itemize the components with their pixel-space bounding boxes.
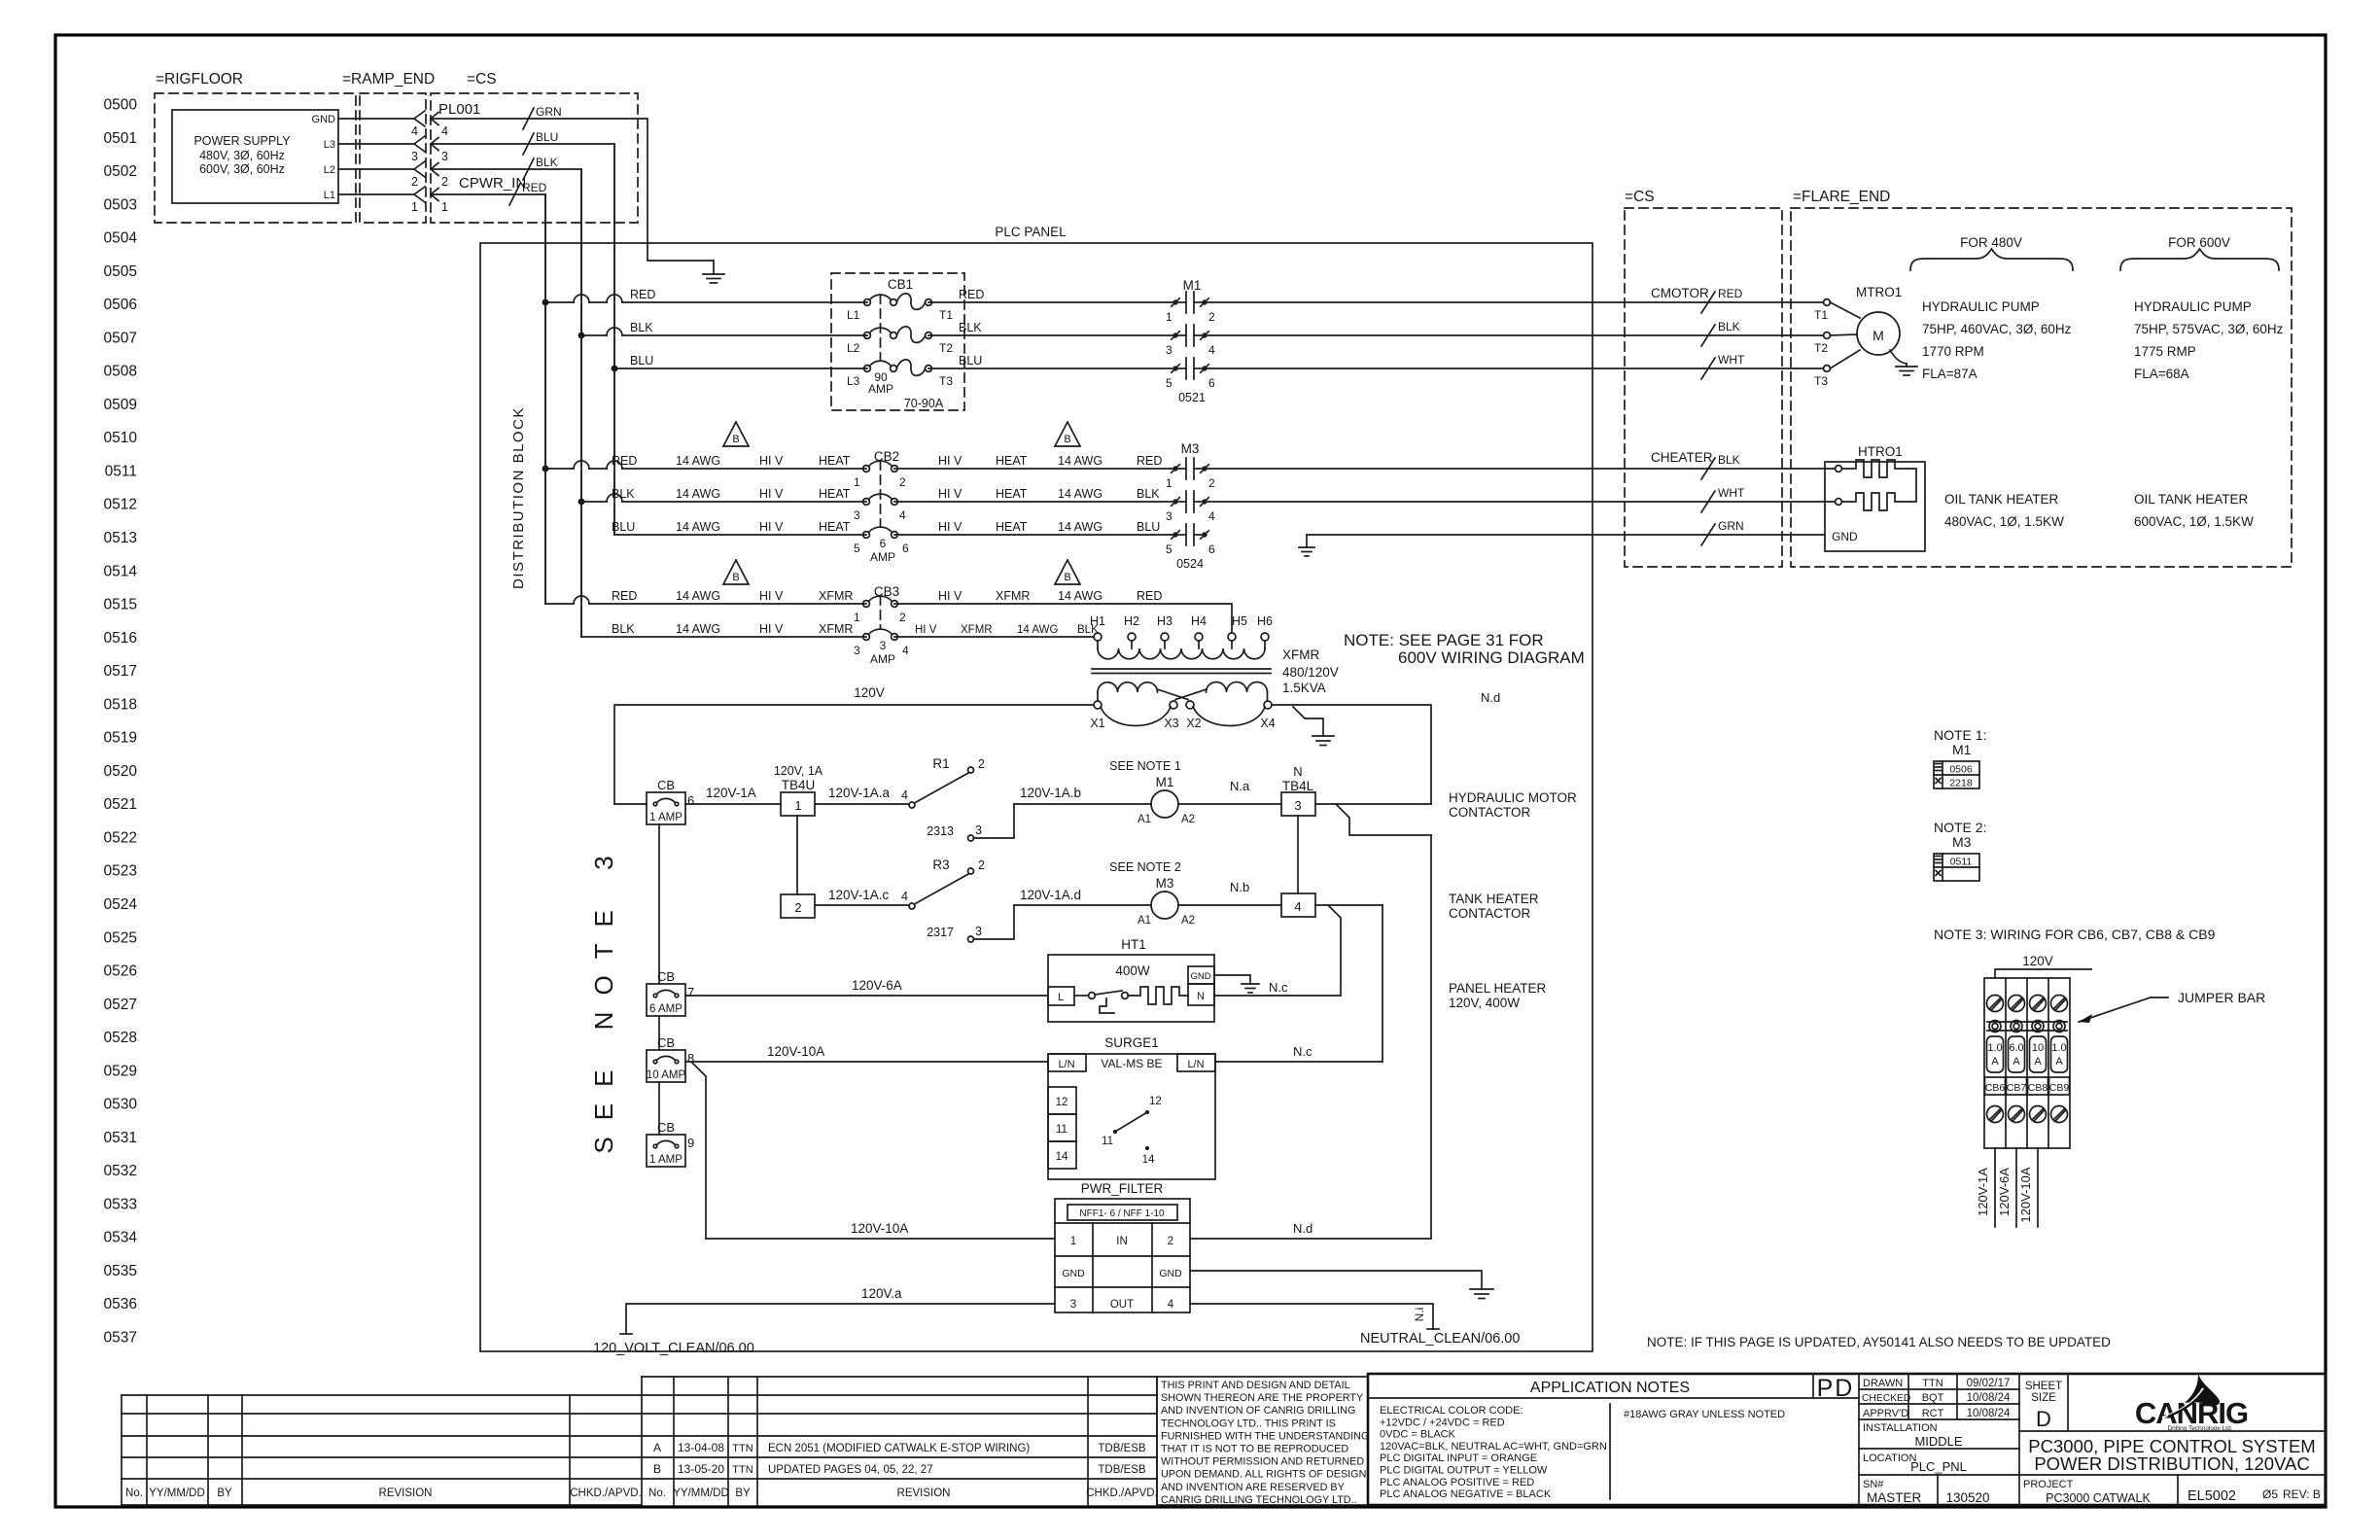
revision triangle B (right of CB3)	[1055, 560, 1080, 584]
svg-text:0513: 0513	[104, 530, 137, 546]
svg-text:RCT: RCT	[1922, 1408, 1944, 1419]
svg-text:BLK: BLK	[959, 321, 982, 334]
svg-text:WITHOUT PERMISSION AND RETURNE: WITHOUT PERMISSION AND RETURNED	[1161, 1456, 1364, 1468]
svg-text:1.0: 1.0	[1987, 1042, 2002, 1054]
svg-text:600V WIRING DIAGRAM: 600V WIRING DIAGRAM	[1398, 648, 1585, 667]
svg-text:BY: BY	[735, 1487, 751, 1499]
location box =CS right (dashed)	[1625, 208, 1782, 567]
svg-text:0511: 0511	[105, 464, 137, 480]
circuit breaker CB9	[647, 1135, 685, 1167]
breaker CB2 pole 1	[863, 466, 870, 472]
wire BLU row to CB1	[614, 367, 867, 369]
svg-text:TDB/ESB: TDB/ESB	[1098, 1443, 1146, 1454]
svg-text:WHT: WHT	[1718, 486, 1745, 500]
svg-text:APPLICATION NOTES: APPLICATION NOTES	[1530, 1380, 1690, 1396]
svg-text:TTN: TTN	[732, 1443, 752, 1454]
svg-text:0521: 0521	[104, 796, 137, 813]
svg-text:0531: 0531	[104, 1130, 137, 1146]
wire BLU distribution vertical (redraw over hops)	[613, 144, 615, 535]
SURGE1 terminal cell 12	[1048, 1087, 1076, 1114]
svg-text:2: 2	[1208, 310, 1215, 324]
svg-text:4: 4	[902, 644, 909, 657]
svg-text:REVISION: REVISION	[379, 1487, 433, 1499]
svg-text:120V-6A: 120V-6A	[852, 978, 902, 993]
svg-text:0520: 0520	[104, 763, 138, 780]
breaker CB1 pole 1 (L1-T1)	[864, 299, 871, 306]
svg-text:RED: RED	[1137, 454, 1162, 468]
wire M3 to CS row 482 (BLK)	[1207, 468, 1835, 470]
contactor M3 pole 3	[1172, 532, 1177, 537]
svg-text:HI V: HI V	[759, 622, 784, 636]
svg-text:RED: RED	[630, 288, 655, 301]
svg-text:SHEET: SHEET	[2025, 1381, 2062, 1392]
svg-text:75HP, 575VAC, 3Ø, 60Hz: 75HP, 575VAC, 3Ø, 60Hz	[2134, 322, 2284, 336]
svg-text:0508: 0508	[104, 364, 137, 380]
svg-text:0519: 0519	[104, 730, 137, 747]
svg-text:3: 3	[880, 639, 887, 652]
junction dot RED row 482	[542, 466, 549, 472]
wire TB4U-1 to TB4U-2	[796, 816, 798, 894]
svg-text:3: 3	[854, 644, 860, 657]
svg-text:3: 3	[411, 150, 418, 163]
svg-text:GND: GND	[1159, 1268, 1182, 1279]
wire CB3 pole1 to XFMR H5	[894, 604, 1232, 633]
svg-text:1 AMP: 1 AMP	[649, 1154, 682, 1166]
wire 120V-10A to PWR_FILTER pin 1	[706, 1238, 1055, 1240]
svg-text:PLC DIGITAL INPUT = ORANGE: PLC DIGITAL INPUT = ORANGE	[1380, 1452, 1537, 1464]
svg-text:T3: T3	[1814, 374, 1828, 388]
svg-text:=FLARE_END: =FLARE_END	[1793, 189, 1890, 205]
svg-text:3: 3	[441, 150, 448, 163]
svg-text:H3: H3	[1157, 614, 1172, 628]
svg-text:120V-10A: 120V-10A	[767, 1044, 824, 1059]
svg-text:14 AWG: 14 AWG	[676, 454, 720, 468]
svg-text:SURGE1: SURGE1	[1104, 1035, 1159, 1050]
svg-text:X2: X2	[1186, 717, 1201, 730]
svg-text:1: 1	[411, 200, 418, 214]
svg-text:120V: 120V	[854, 685, 885, 700]
svg-text:N.b: N.b	[1230, 880, 1249, 894]
svg-text:13-04-08: 13-04-08	[678, 1441, 724, 1454]
svg-text:600V, 3Ø, 60Hz: 600V, 3Ø, 60Hz	[199, 162, 285, 176]
svg-text:POWER DISTRIBUTION, 120VAC: POWER DISTRIBUTION, 120VAC	[2034, 1453, 2309, 1474]
svg-text:M3: M3	[1952, 834, 1972, 850]
svg-text:SHOWN THEREON ARE THE PROPERTY: SHOWN THEREON ARE THE PROPERTY	[1161, 1392, 1363, 1404]
svg-text:0522: 0522	[104, 829, 137, 846]
svg-text:PANEL HEATER: PANEL HEATER	[1449, 981, 1547, 996]
svg-text:GND: GND	[312, 114, 336, 125]
svg-text:THAT IT IS NOT TO BE REPRODUCE: THAT IT IS NOT TO BE REPRODUCED	[1161, 1444, 1348, 1455]
wire PWR_FILTER pin 4 to NEUTRAL_CLEAN	[1190, 1304, 1433, 1329]
wire CB1 to M1 RED	[928, 301, 1175, 303]
svg-text:120VAC=BLK, NEUTRAL AC=WHT,: 120VAC=BLK, NEUTRAL AC=WHT, GND=GRN	[1380, 1441, 1607, 1452]
svg-text:DISTRIBUTION BLOCK: DISTRIBUTION BLOCK	[510, 406, 527, 589]
svg-text:=RAMP_END: =RAMP_END	[342, 71, 435, 87]
svg-text:CB1: CB1	[888, 277, 913, 292]
svg-text:0507: 0507	[104, 330, 137, 346]
svg-text:0532: 0532	[104, 1163, 137, 1179]
wire BLK row to CB1	[581, 334, 867, 336]
svg-text:6: 6	[902, 542, 909, 555]
svg-text:NOTE 3: WIRING FOR CB6, C: NOTE 3: WIRING FOR CB6, CB7, CB8 & CB9	[1934, 927, 2216, 942]
right revision table	[642, 1376, 1157, 1378]
wire CB8 to CB9 chain	[658, 1082, 660, 1135]
wire TB4L-3 to N.d vertical	[1315, 803, 1431, 805]
svg-text:2: 2	[441, 175, 448, 189]
svg-text:120V-1A.b: 120V-1A.b	[1020, 786, 1081, 800]
svg-text:4: 4	[441, 124, 448, 138]
svg-text:RED: RED	[959, 288, 984, 301]
svg-text:1: 1	[1166, 476, 1172, 490]
motor MTRO1 terminal leads	[1830, 302, 1860, 318]
svg-text:2: 2	[899, 475, 906, 489]
revision triangle B (left of CB3)	[723, 560, 749, 584]
svg-text:120V-1A: 120V-1A	[706, 786, 756, 800]
svg-text:4: 4	[901, 890, 908, 903]
svg-text:10: 10	[2032, 1042, 2044, 1054]
svg-text:1: 1	[1166, 310, 1172, 324]
svg-text:AMP: AMP	[868, 382, 893, 396]
transformer XFMR secondary winding left (X1-X2 crossover)	[1098, 682, 1158, 692]
svg-text:TANK HEATER: TANK HEATER	[1449, 892, 1539, 906]
svg-text:TB4L: TB4L	[1282, 779, 1314, 793]
svg-text:HEAT: HEAT	[819, 487, 851, 501]
svg-text:OIL TANK HEATER: OIL TANK HEATER	[1944, 492, 2059, 507]
svg-text:H4: H4	[1191, 614, 1207, 628]
svg-text:CB: CB	[657, 969, 675, 984]
svg-text:1: 1	[1070, 1236, 1076, 1247]
svg-text:M3: M3	[1181, 441, 1200, 456]
contactor M1 pole 1	[1172, 299, 1177, 304]
svg-text:3: 3	[1166, 343, 1172, 357]
svg-text:CHKD./APVD.: CHKD./APVD.	[1086, 1487, 1158, 1499]
svg-text:3: 3	[1166, 509, 1172, 523]
svg-text:RED: RED	[1718, 287, 1743, 300]
svg-text:MTRO1: MTRO1	[1856, 285, 1902, 299]
svg-text:GND: GND	[1832, 530, 1858, 543]
ground at PLC panel top (GRN)	[713, 261, 715, 274]
svg-text:M1: M1	[1183, 278, 1202, 293]
wire CB8 output 120V-10A to SURGE1	[685, 1061, 1048, 1063]
svg-text:X1: X1	[1090, 717, 1104, 730]
svg-text:120V-1A.c: 120V-1A.c	[828, 888, 890, 902]
svg-text:0517: 0517	[104, 663, 137, 680]
svg-text:SEE NOTE 3: SEE NOTE 3	[589, 839, 618, 1153]
svg-text:IN: IN	[1116, 1236, 1128, 1247]
svg-text:4: 4	[1168, 1299, 1174, 1311]
svg-text:120V, 400W: 120V, 400W	[1449, 996, 1520, 1010]
svg-text:BLK: BLK	[1718, 453, 1740, 467]
svg-text:6: 6	[687, 793, 694, 808]
svg-text:0534: 0534	[104, 1230, 138, 1246]
connector PL001 socket chevron pin 4	[414, 111, 425, 126]
wire PL001-4 GRN	[431, 119, 714, 261]
svg-text:1: 1	[794, 798, 801, 813]
svg-text:A: A	[2034, 1056, 2042, 1067]
svg-text:CPWR_IN: CPWR_IN	[459, 175, 526, 192]
motor MTRO1 terminals	[1824, 299, 1831, 306]
svg-text:JUMPER BAR: JUMPER BAR	[2178, 990, 2265, 1005]
fuse block top screws	[1987, 996, 2004, 1012]
svg-text:ELECTRICAL COLOR CODE:: ELECTRICAL COLOR CODE:	[1380, 1405, 1523, 1417]
transformer XFMR secondary under-arc X2-X4	[1193, 707, 1265, 726]
svg-text:13-05-20: 13-05-20	[678, 1462, 724, 1476]
svg-text:RED: RED	[522, 181, 547, 194]
CB1 trip dashed link	[880, 295, 882, 361]
svg-text:WHT: WHT	[1718, 353, 1745, 367]
CB2 trip dashed link	[880, 461, 882, 527]
svg-text:0503: 0503	[104, 196, 137, 213]
HT1 terminal N	[1188, 984, 1214, 1005]
svg-text:0525: 0525	[104, 929, 137, 946]
svg-text:L/N: L/N	[1058, 1059, 1074, 1070]
svg-text:L2: L2	[847, 341, 860, 355]
connector PL001 socket chevron pin 3	[414, 136, 425, 152]
svg-text:HTRO1: HTRO1	[1858, 444, 1903, 459]
svg-text:14 AWG: 14 AWG	[1058, 520, 1102, 534]
svg-text:14 AWG: 14 AWG	[1058, 589, 1102, 603]
wire R3 pin3 to 120V-1A.d	[974, 905, 1015, 939]
svg-text:=CS: =CS	[467, 71, 497, 87]
contactor M1 pole 2	[1172, 332, 1177, 337]
svg-text:CHKD./APVD.: CHKD./APVD.	[570, 1487, 642, 1499]
breaker CB1 pole 2 (L2-T2)	[864, 332, 871, 339]
wire RED row to CB1	[545, 301, 867, 303]
svg-text:1770 RPM: 1770 RPM	[1922, 344, 1984, 359]
svg-text:#18AWG GRAY UNLESS NOTED: #18AWG GRAY UNLESS NOTED	[1624, 1409, 1785, 1420]
slash and label RED motor wire	[1701, 292, 1715, 313]
svg-text:0512: 0512	[104, 497, 137, 513]
svg-text:10/08/24: 10/08/24	[1967, 1392, 2011, 1404]
fuse block bottom screws	[1987, 1106, 2004, 1123]
svg-text:1 AMP: 1 AMP	[649, 812, 682, 823]
installation cell	[1859, 1448, 2019, 1450]
svg-text:H1: H1	[1090, 614, 1105, 628]
svg-text:INSTALLATION: INSTALLATION	[1863, 1422, 1938, 1434]
svg-text:14 AWG: 14 AWG	[676, 520, 720, 534]
svg-text:0501: 0501	[104, 130, 137, 147]
svg-text:HEAT: HEAT	[819, 454, 851, 468]
svg-text:120V.a: 120V.a	[861, 1286, 902, 1301]
svg-text:BLU: BLU	[1137, 520, 1160, 534]
svg-text:N.d: N.d	[1293, 1221, 1312, 1236]
connector PL001 socket chevron pin 2	[414, 161, 425, 177]
svg-text:CMOTOR: CMOTOR	[1651, 286, 1709, 300]
svg-text:RED: RED	[612, 454, 637, 468]
svg-text:2: 2	[411, 175, 418, 189]
svg-text:PLC ANALOG NEGATIVE = BLAC: PLC ANALOG NEGATIVE = BLACK	[1380, 1488, 1552, 1500]
wire PWR_FILTER pin 3 120V.a to 120_VOLT_CLEAN	[626, 1304, 1055, 1334]
svg-text:RED: RED	[612, 589, 637, 603]
svg-text:A: A	[2055, 1056, 2063, 1067]
svg-text:BLK: BLK	[1718, 320, 1740, 333]
svg-text:0533: 0533	[104, 1196, 137, 1212]
svg-text:N.c: N.c	[1293, 1044, 1312, 1059]
svg-text:PLC_PNL: PLC_PNL	[1910, 1459, 1967, 1474]
svg-text:0529: 0529	[104, 1063, 137, 1079]
svg-text:B: B	[732, 572, 739, 583]
svg-text:+12VDC / +24VDC = RED: +12VDC / +24VDC = RED	[1380, 1417, 1505, 1428]
svg-text:0509: 0509	[104, 397, 137, 413]
HT1 heating element	[1128, 987, 1188, 1004]
breaker CB3 pole 2	[863, 634, 870, 641]
junction dot RED vertical	[542, 299, 549, 306]
svg-text:GRN: GRN	[1718, 519, 1744, 533]
svg-text:120V-1A.a: 120V-1A.a	[828, 786, 891, 800]
svg-text:N: N	[1293, 764, 1302, 779]
svg-text:480/120V: 480/120V	[1282, 665, 1339, 680]
svg-text:2313: 2313	[927, 824, 954, 838]
motor MTRO1 ground	[1890, 350, 1907, 364]
svg-text:3: 3	[854, 508, 860, 522]
svg-text:BY: BY	[217, 1487, 232, 1499]
location box =RAMP_END (dashed)	[360, 93, 426, 223]
wire 120V rail from X1	[614, 705, 1094, 804]
fuse bodies with ratings	[1987, 1036, 2004, 1072]
svg-text:REVISION: REVISION	[897, 1487, 951, 1499]
transformer XFMR secondary winding right (X3-X4 crossover)	[1207, 682, 1268, 693]
svg-text:=CS: =CS	[1625, 189, 1655, 205]
svg-text:T2: T2	[1814, 341, 1828, 355]
wire PWR_FILTER GND to ground	[1190, 1271, 1482, 1289]
svg-text:AND INVENTION ARE RESERVED BY: AND INVENTION ARE RESERVED BY	[1161, 1482, 1345, 1493]
transformer XFMR primary terminals H1-H6	[1094, 633, 1102, 641]
fuse terminal block outline	[1984, 978, 2070, 1148]
svg-text:4: 4	[1294, 899, 1301, 914]
svg-text:No.: No.	[125, 1487, 143, 1499]
svg-text:120V-1A.d: 120V-1A.d	[1020, 888, 1081, 902]
wire TB4U-2 to R3 pin4	[815, 904, 908, 906]
svg-text:A1: A1	[1137, 915, 1151, 927]
wire CB6 to CB7 chain	[658, 824, 660, 984]
svg-text:HI V: HI V	[938, 520, 962, 534]
svg-text:CB: CB	[657, 1035, 675, 1050]
wire power supply pin to PL001 pin 1	[338, 193, 414, 195]
svg-text:BLK: BLK	[1137, 487, 1160, 501]
svg-text:3: 3	[975, 925, 982, 938]
svg-text:0506: 0506	[104, 297, 137, 313]
svg-text:7: 7	[687, 985, 694, 999]
slash and label BLK heater wire	[1701, 458, 1715, 479]
contactor M1 pole 3	[1172, 366, 1177, 370]
svg-text:No.: No.	[648, 1487, 666, 1499]
svg-text:0526: 0526	[104, 963, 137, 980]
PLC PANEL enclosure box	[480, 243, 1592, 1351]
svg-text:CANRIG DRILLING TECHNOLOGY LTD: CANRIG DRILLING TECHNOLOGY LTD..	[1161, 1494, 1357, 1506]
svg-text:BLK: BLK	[630, 321, 653, 334]
svg-text:6: 6	[1208, 376, 1215, 390]
svg-text:9: 9	[687, 1136, 694, 1150]
svg-text:B: B	[1064, 434, 1070, 445]
svg-text:NOTE 2:: NOTE 2:	[1934, 820, 1986, 835]
svg-text:2218: 2218	[1949, 778, 1973, 789]
circuit breaker CB1 dashed box	[831, 273, 964, 410]
wire M3 coil to TB4L-4	[1178, 904, 1281, 906]
svg-text:THIS PRINT AND DESIGN AND DETA: THIS PRINT AND DESIGN AND DETAIL	[1161, 1380, 1350, 1391]
svg-text:480V, 3Ø, 60Hz: 480V, 3Ø, 60Hz	[199, 149, 285, 162]
svg-text:L3: L3	[847, 374, 860, 388]
motor MTRO1 circle	[1857, 312, 1900, 355]
svg-text:HYDRAULIC PUMP: HYDRAULIC PUMP	[2134, 299, 2252, 314]
svg-text:1.0: 1.0	[2051, 1042, 2066, 1054]
svg-text:M: M	[1872, 328, 1884, 343]
svg-text:10/08/24: 10/08/24	[1967, 1408, 2011, 1419]
svg-text:A: A	[1991, 1056, 1999, 1067]
svg-text:0510: 0510	[104, 430, 138, 446]
svg-text:12: 12	[1149, 1096, 1162, 1107]
svg-text:NOTE 1:: NOTE 1:	[1934, 727, 1986, 743]
NOTE 1 cross-ref table	[1934, 761, 1979, 788]
svg-text:12: 12	[1056, 1097, 1068, 1108]
wire BLK distribution vertical lower	[580, 335, 582, 637]
svg-text:SN#: SN#	[1863, 1479, 1884, 1490]
svg-text:0504: 0504	[104, 230, 138, 247]
wire R1 pin3 to 120V-1A.b	[974, 804, 1015, 838]
svg-text:PWR_FILTER: PWR_FILTER	[1081, 1181, 1164, 1196]
svg-text:600VAC, 1Ø, 1.5KW: 600VAC, 1Ø, 1.5KW	[2134, 514, 2254, 529]
svg-text:2: 2	[1208, 476, 1215, 490]
svg-text:BQT: BQT	[1922, 1392, 1944, 1404]
svg-text:XFMR: XFMR	[819, 622, 853, 636]
wire CB7 output 120V-6A to HT1	[685, 995, 1048, 997]
svg-text:130520: 130520	[1945, 1490, 1989, 1505]
svg-text:AMP: AMP	[870, 652, 895, 666]
svg-text:3: 3	[1070, 1299, 1076, 1311]
svg-text:NEUTRAL_CLEAN/06.00: NEUTRAL_CLEAN/06.00	[1360, 1331, 1520, 1347]
svg-text:0536: 0536	[104, 1296, 137, 1312]
svg-text:UPDATED PAGES 04, 05, 22, 27: UPDATED PAGES 04, 05, 22, 27	[768, 1464, 933, 1476]
application notes header	[1368, 1397, 1859, 1399]
breaker CB2 pole 3	[863, 532, 870, 539]
svg-text:AMP: AMP	[870, 550, 895, 564]
HTRO1 element 1	[1836, 466, 1842, 472]
svg-text:N.d: N.d	[1481, 690, 1500, 705]
svg-text:HYDRAULIC PUMP: HYDRAULIC PUMP	[1922, 299, 2040, 314]
wire power supply pin to PL001 pin 4	[338, 118, 414, 120]
wire CB1 to M1 BLU	[928, 367, 1175, 369]
svg-text:6 AMP: 6 AMP	[649, 1003, 682, 1015]
title text	[2019, 1430, 2326, 1432]
wire N.d to PWR_FILTER pin 2	[1190, 1238, 1431, 1240]
junction dot BLK row 516	[578, 499, 585, 506]
wire RED row to CB2	[545, 468, 866, 470]
svg-text:CONTACTOR: CONTACTOR	[1449, 906, 1531, 921]
drawn/checked table	[1858, 1374, 1860, 1505]
svg-text:SEE NOTE 2: SEE NOTE 2	[1109, 860, 1181, 874]
svg-text:PROJECT: PROJECT	[2023, 1479, 2074, 1490]
svg-text:ECN 2051 (MODIFIED CATWALK E-S: ECN 2051 (MODIFIED CATWALK E-STOP WIRING…	[768, 1443, 1030, 1454]
svg-text:5: 5	[1166, 542, 1172, 556]
svg-text:POWER SUPPLY: POWER SUPPLY	[193, 134, 291, 148]
svg-text:TTN: TTN	[732, 1464, 752, 1476]
svg-text:5: 5	[854, 542, 860, 555]
svg-text:L3: L3	[324, 139, 335, 151]
svg-text:XFMR: XFMR	[961, 624, 993, 636]
wire ground to CS row 550 (GRN)	[1307, 534, 1825, 536]
wire RED row to CB3	[545, 603, 866, 605]
svg-text:A1: A1	[1137, 814, 1151, 825]
svg-text:=RIGFLOOR: =RIGFLOOR	[156, 71, 243, 87]
NOTE 2 cross-ref table	[1934, 854, 1979, 881]
svg-text:120V, 1A: 120V, 1A	[774, 764, 823, 778]
svg-text:A: A	[653, 1441, 661, 1454]
wire TB4U-1 to R1 pin4	[815, 803, 908, 805]
svg-text:R3: R3	[932, 857, 949, 872]
svg-text:HEAT: HEAT	[819, 520, 851, 534]
wire SURGE1 to N vertical	[1215, 1061, 1382, 1063]
circuit breaker CB6	[647, 792, 685, 824]
svg-text:XFMR: XFMR	[996, 589, 1030, 603]
